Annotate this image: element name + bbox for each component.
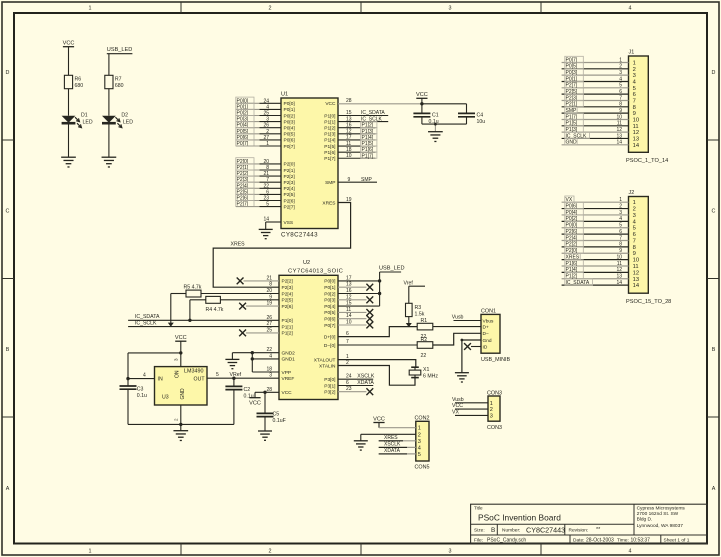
- no-connect X at U2 pin 23: [338, 388, 373, 395]
- title block texts: [474, 505, 690, 543]
- svg-text:2: 2: [418, 432, 421, 438]
- ground (U2 GND): [225, 359, 239, 368]
- wire U2 VCC pin: [255, 391, 279, 394]
- svg-text:P0[6]: P0[6]: [324, 317, 335, 323]
- wire P1[3] to J1 pin 12: [562, 126, 629, 133]
- svg-text:LM3490: LM3490: [184, 368, 203, 374]
- svg-text:4: 4: [266, 104, 269, 110]
- svg-text:3: 3: [174, 358, 179, 361]
- svg-text:CY7C64013_SOIC: CY7C64013_SOIC: [288, 268, 343, 274]
- svg-text:2: 2: [490, 407, 493, 413]
- svg-text:14: 14: [616, 140, 622, 146]
- U1 pin 14 VSS wire: [263, 217, 293, 230]
- svg-text:IC_SDATA: IC_SDATA: [361, 110, 385, 116]
- wire XDATA stub: [338, 380, 374, 386]
- ground (CON2): [354, 441, 368, 450]
- U1 pin 12 P1[3] wire+label: [338, 128, 377, 135]
- svg-text:D1: D1: [81, 112, 88, 118]
- CON1 pin names: [483, 318, 495, 350]
- svg-text:1: 1: [418, 426, 421, 432]
- svg-text:10: 10: [616, 114, 622, 120]
- svg-text:P2[5]: P2[5]: [282, 298, 293, 304]
- svg-text:0.1u: 0.1u: [244, 393, 254, 399]
- svg-text:3: 3: [449, 6, 452, 12]
- svg-text:VSS: VSS: [284, 220, 294, 226]
- svg-text:XSCLK: XSCLK: [384, 442, 401, 448]
- svg-text:VCC: VCC: [416, 92, 428, 98]
- no-connect X at U2 pin 10: [338, 322, 373, 329]
- svg-text:10: 10: [633, 258, 639, 264]
- U1 pin 24 P0[0] wire+label: [236, 97, 295, 107]
- svg-text:3: 3: [266, 117, 269, 123]
- wire U3 OUT pin number: [216, 372, 219, 378]
- svg-text:P0[4]: P0[4]: [284, 126, 295, 132]
- no-connect X at U2 pin 19: [239, 303, 279, 310]
- resistor R6: [64, 75, 83, 89]
- svg-text:C1: C1: [432, 112, 439, 118]
- wire P0[4] to J2 pin 3: [562, 209, 629, 216]
- svg-text:R3: R3: [415, 305, 422, 311]
- U1 pin 18 P1[6] wire+label: [338, 146, 377, 153]
- wire VCC rail to C4: [422, 103, 467, 105]
- U1 pin 3 P0[3] wire+label: [236, 115, 295, 125]
- wire USB_LED to R7: [108, 54, 110, 76]
- svg-text:SMP: SMP: [325, 180, 335, 186]
- svg-text:C: C: [6, 209, 10, 215]
- svg-text:6 MHz: 6 MHz: [423, 374, 438, 380]
- svg-text:P2[6]: P2[6]: [284, 198, 295, 204]
- svg-text:5: 5: [619, 223, 622, 229]
- svg-text:Vusb: Vusb: [452, 314, 464, 320]
- ground (C5): [258, 431, 272, 440]
- svg-text:R4 4.7k: R4 4.7k: [206, 307, 224, 313]
- wire U3 GND pin: [174, 405, 183, 431]
- svg-text:Lynnwood, WA 98037: Lynnwood, WA 98037: [637, 523, 684, 529]
- wire U2 GND2 to ground: [232, 351, 279, 359]
- svg-text:14: 14: [633, 143, 640, 149]
- U1 right-side pin names: [322, 101, 336, 206]
- wire IC_SCLK bus: [128, 321, 279, 327]
- svg-text:P2[1]: P2[1]: [284, 168, 295, 174]
- svg-text:2: 2: [633, 67, 636, 73]
- wire D+ to R1: [338, 327, 417, 337]
- no-connect X at U2 pin 25: [239, 330, 279, 337]
- svg-text:P0[0]: P0[0]: [324, 279, 335, 285]
- svg-text:8: 8: [619, 102, 622, 108]
- svg-text:Revision:: Revision:: [569, 528, 589, 534]
- svg-text:D−: D−: [483, 331, 489, 337]
- svg-text:OUT: OUT: [194, 377, 206, 383]
- wire U2 GND1 tie: [251, 353, 279, 361]
- svg-text:U1: U1: [281, 92, 288, 98]
- wire R6 to D1: [68, 89, 70, 116]
- svg-text:GND1: GND1: [282, 357, 296, 363]
- U1 pin 22 P2[4] wire+label: [236, 182, 295, 192]
- svg-text:R2: R2: [421, 337, 428, 343]
- wire P1[7] to J1 pin 10: [562, 113, 629, 120]
- CON2 inside pin numbers: [418, 426, 421, 458]
- svg-text:Number:: Number:: [502, 528, 520, 534]
- svg-text:3: 3: [633, 73, 636, 79]
- svg-text:1: 1: [89, 549, 92, 555]
- wire SMP to J1 pin 9: [562, 107, 629, 114]
- svg-text:20: 20: [263, 159, 269, 165]
- svg-text:P0[3]: P0[3]: [284, 119, 295, 125]
- svg-text:1.5k: 1.5k: [415, 312, 425, 318]
- svg-text:6: 6: [619, 89, 622, 95]
- svg-text:11: 11: [617, 261, 622, 267]
- wire P1[4] to J2 pin 12: [562, 266, 629, 273]
- svg-text:27: 27: [263, 135, 269, 141]
- svg-text:3: 3: [490, 413, 493, 419]
- svg-text:J2: J2: [629, 190, 635, 196]
- svg-text:Vbus: Vbus: [483, 318, 495, 324]
- svg-text:12: 12: [633, 130, 639, 136]
- power VCC (top-left): [63, 41, 75, 47]
- title block address: [637, 505, 686, 529]
- wire C1-C4 bottom rail: [422, 123, 467, 125]
- svg-text:LED: LED: [83, 119, 93, 125]
- svg-text:P0[5]: P0[5]: [324, 310, 335, 316]
- U1 pin 10 P1[7] wire+label: [338, 152, 377, 159]
- svg-text:22: 22: [263, 183, 269, 189]
- svg-text:2: 2: [633, 207, 636, 213]
- svg-text:P1[1]: P1[1]: [282, 324, 293, 330]
- svg-text:IC_SCLK: IC_SCLK: [135, 321, 157, 327]
- U1 pin 9 SMP wire: [338, 177, 377, 183]
- svg-text:VREF: VREF: [282, 376, 295, 382]
- svg-text:8: 8: [633, 245, 636, 251]
- wire XSCLK to CON2 pin 4: [379, 442, 416, 448]
- svg-text:7: 7: [346, 339, 349, 345]
- U1 pin 27 P0[6] wire+label: [236, 134, 295, 144]
- svg-text:3: 3: [418, 439, 421, 445]
- wire P0[6] to J2 pin 2: [562, 202, 629, 209]
- U1 pin 13 IC_SCLK wire: [338, 116, 388, 122]
- svg-text:P0[2]: P0[2]: [324, 291, 335, 297]
- svg-text:VCC: VCC: [63, 41, 75, 47]
- net label USB_LED (at U2): [379, 265, 405, 272]
- wire VCC to CON2 pin 1: [379, 423, 416, 428]
- svg-text:10: 10: [616, 254, 622, 260]
- svg-text:P0[3]: P0[3]: [324, 298, 335, 304]
- svg-text:1: 1: [490, 401, 493, 407]
- svg-text:5: 5: [619, 83, 622, 89]
- svg-text:14: 14: [633, 283, 640, 289]
- svg-text:CON3: CON3: [487, 425, 502, 431]
- svg-text:C4: C4: [477, 112, 484, 118]
- svg-text:CON5: CON5: [415, 465, 430, 471]
- svg-text:11: 11: [633, 264, 639, 270]
- svg-text:1: 1: [619, 197, 622, 203]
- svg-text:USB_MINIB: USB_MINIB: [481, 357, 510, 363]
- wire ground rail under U3: [128, 423, 234, 425]
- svg-text:P2[5]: P2[5]: [284, 192, 295, 198]
- svg-text:6: 6: [266, 189, 269, 195]
- U2 right-side pin names and numbers: [314, 275, 352, 395]
- svg-text:5: 5: [266, 202, 269, 208]
- svg-text:VPP: VPP: [282, 370, 292, 376]
- wire GND to J1 pin 14: [562, 139, 629, 146]
- svg-text:VCC: VCC: [452, 403, 463, 409]
- svg-text:C: C: [712, 209, 716, 215]
- svg-text:A: A: [712, 486, 716, 492]
- svg-text:9: 9: [619, 108, 622, 114]
- ground (U1 VSS): [259, 229, 273, 238]
- svg-text:4: 4: [629, 549, 632, 555]
- wire U3 IN pin: [126, 373, 154, 381]
- wire XTALOUT to crystal: [338, 360, 416, 368]
- svg-text:B: B: [491, 527, 495, 534]
- svg-text:Vref: Vref: [404, 280, 414, 286]
- capacitor C3: [120, 379, 148, 425]
- svg-text:B: B: [712, 347, 716, 353]
- svg-text:P0[0]: P0[0]: [284, 101, 295, 107]
- svg-text:IC_SDATA: IC_SDATA: [566, 280, 590, 286]
- svg-text:6: 6: [633, 232, 636, 238]
- svg-text:Vusb: Vusb: [452, 397, 464, 403]
- svg-text:Date:: Date:: [573, 537, 584, 543]
- svg-text:5: 5: [418, 452, 421, 458]
- svg-text:P1[0]: P1[0]: [282, 318, 293, 324]
- svg-text:10: 10: [633, 117, 639, 123]
- svg-text:P1[7]: P1[7]: [362, 153, 374, 159]
- svg-text:P2[4]: P2[4]: [284, 186, 295, 192]
- svg-text:1: 1: [633, 61, 636, 67]
- svg-text:4: 4: [619, 76, 622, 82]
- svg-text:XRES: XRES: [231, 242, 246, 248]
- capacitor C4: [458, 104, 485, 125]
- power VCC (below U2 pin 28, inverted): [249, 392, 261, 406]
- svg-text:13: 13: [633, 136, 639, 142]
- wire P1[2] to J2 pin 13: [562, 273, 629, 280]
- wire VRef rail (U3 OUT to U2 VREF): [207, 372, 279, 380]
- wire U2 VPP tie: [252, 359, 279, 372]
- U1 pin 5 P2[7] wire+label: [236, 200, 295, 210]
- svg-text:U3: U3: [162, 395, 169, 401]
- no-connect X at U2 pin 12: [338, 296, 373, 303]
- svg-text:C2: C2: [244, 387, 251, 393]
- crystal X1 (6 MHz): [409, 367, 438, 380]
- connector CON3 body: [487, 390, 502, 431]
- svg-text:P0[1]: P0[1]: [284, 107, 295, 113]
- wire P1[6] to J2 pin 11: [562, 260, 629, 267]
- svg-text:P1[5]: P1[5]: [324, 144, 335, 150]
- svg-text:P3[0]: P3[0]: [324, 377, 335, 383]
- op-amp U1 body (CY8C27443 MCU): [281, 92, 338, 239]
- svg-text:9: 9: [619, 248, 622, 254]
- svg-text:2: 2: [269, 549, 272, 555]
- svg-text:22: 22: [421, 353, 427, 359]
- wire P2[4] to J2 pin 7: [562, 234, 629, 241]
- connector CON1 body (USB_MINIB): [481, 308, 510, 362]
- svg-text:5: 5: [633, 226, 636, 232]
- node VCC junction at C1: [420, 102, 423, 105]
- svg-text:R6: R6: [75, 77, 82, 83]
- svg-text:P1[2]: P1[2]: [324, 126, 335, 132]
- svg-text:C3: C3: [137, 386, 144, 392]
- op-amp U2 body (CY7C64013 USB controller): [279, 260, 343, 400]
- svg-text:6: 6: [619, 229, 622, 235]
- wire P2[5] to J1 pin 6: [562, 88, 629, 95]
- svg-text:USB_LED: USB_LED: [107, 47, 133, 53]
- svg-text:9: 9: [633, 251, 636, 257]
- U1 pin 17 P1[4] wire+label: [338, 134, 377, 141]
- svg-text:D−[0]: D−[0]: [324, 343, 336, 349]
- wire USB_LED down U2 P0 pins: [338, 272, 381, 306]
- power VCC (above U3): [175, 335, 187, 341]
- svg-text:4: 4: [143, 373, 146, 379]
- wire VX to J2 pin 1: [562, 196, 629, 203]
- wire R5 to IC_SCLK: [168, 294, 174, 327]
- svg-text:ON: ON: [175, 370, 181, 378]
- svg-text:C5: C5: [273, 411, 280, 417]
- svg-text:2700 162nd St. SW: 2700 162nd St. SW: [637, 511, 679, 517]
- ground (C1/C4): [428, 132, 443, 142]
- svg-text:1: 1: [266, 141, 269, 147]
- svg-text:B: B: [6, 347, 10, 353]
- svg-text:680: 680: [115, 83, 124, 89]
- svg-text:P0[1]: P0[1]: [324, 285, 335, 291]
- wire P2[3] to J1 pin 7: [562, 94, 629, 101]
- wire VCC to CON3 pin 2: [452, 403, 488, 409]
- connector CON2 body: [415, 416, 430, 471]
- wire D2 to ground: [108, 124, 110, 157]
- capacitor C2: [225, 378, 253, 424]
- U1 pin 15 IC_SDATA wire: [338, 110, 388, 116]
- svg-text:XSCLK: XSCLK: [357, 374, 375, 380]
- ground (D2): [102, 157, 117, 167]
- svg-text:USB_LED: USB_LED: [379, 265, 405, 271]
- svg-text:14: 14: [616, 280, 622, 286]
- U1 pin 26 P0[4] wire+label: [236, 122, 295, 132]
- wire P0[7] to J1 pin 1: [562, 56, 629, 63]
- svg-text:Size:: Size:: [474, 528, 485, 534]
- LED D2: [102, 112, 133, 127]
- svg-text:P0[6]: P0[6]: [284, 138, 295, 144]
- resistor R7: [105, 75, 124, 89]
- U1 pin 4 P0[1] wire+label: [236, 103, 295, 113]
- CON3 inside pin numbers: [490, 401, 493, 420]
- svg-text:8: 8: [266, 165, 269, 171]
- wire P2[7] to J1 pin 5: [562, 82, 629, 89]
- svg-text:7: 7: [633, 98, 636, 104]
- U1 pin 21 P2[2] wire+label: [236, 170, 295, 180]
- wire IC_SCLK to J1 pin 13: [562, 132, 629, 139]
- wire VCC to R6: [68, 47, 70, 76]
- svg-text:0.1u: 0.1u: [137, 393, 147, 399]
- svg-text:1: 1: [89, 6, 92, 12]
- LED D1: [62, 112, 93, 127]
- svg-text:PSoC_Candy.sch: PSoC_Candy.sch: [487, 537, 526, 543]
- capacitor C1: [413, 104, 438, 125]
- svg-text:P2[3]: P2[3]: [284, 180, 295, 186]
- ground (D1): [61, 157, 76, 167]
- wire D1 to ground: [68, 124, 70, 157]
- svg-text:13: 13: [616, 274, 622, 280]
- svg-text:P0[2]: P0[2]: [284, 113, 295, 119]
- svg-text:7: 7: [619, 95, 622, 101]
- no-connect X at CON1 ID: [464, 343, 481, 350]
- wire P2[0] to J2 pin 9: [562, 247, 629, 254]
- svg-text:4: 4: [619, 216, 622, 222]
- U1 pin 2 P0[5] wire+label: [236, 128, 295, 138]
- wire VX to CON3 pin 3: [452, 410, 488, 416]
- svg-text:3: 3: [633, 213, 636, 219]
- U1 pin 1 P0[7] wire+label: [236, 140, 295, 150]
- no-connect X at U2 pin 21: [237, 278, 279, 285]
- wire P0[2] to J2 pin 4: [562, 215, 629, 222]
- svg-text:1: 1: [619, 57, 622, 63]
- svg-text:6: 6: [633, 92, 636, 98]
- wire CON1 Gnd to ground: [461, 339, 482, 373]
- wire D- to R2: [338, 344, 417, 346]
- svg-text:X1: X1: [423, 367, 429, 373]
- svg-text:10u: 10u: [477, 119, 486, 125]
- capacitor C5: [257, 392, 286, 431]
- wire R2 to CON1 D-: [433, 333, 481, 345]
- svg-text:P1[6]: P1[6]: [324, 150, 335, 156]
- power VCC (above C1): [416, 92, 428, 104]
- svg-text:PSOC_15_TO_28: PSOC_15_TO_28: [626, 299, 671, 305]
- svg-text:P2[2]: P2[2]: [284, 174, 295, 180]
- connector J2 body: [626, 190, 671, 305]
- no-connect X at U2 pin 13: [338, 284, 373, 291]
- svg-text:Cypress Microsystems: Cypress Microsystems: [637, 505, 686, 511]
- svg-text:8: 8: [619, 242, 622, 248]
- svg-text:D: D: [6, 70, 10, 76]
- svg-text:CY8C27443: CY8C27443: [281, 232, 318, 239]
- net label Vref with resistor R3: [404, 280, 426, 327]
- J2 inside pin numbers: [633, 200, 640, 289]
- resistor R4: [190, 296, 279, 313]
- svg-text:8: 8: [633, 105, 636, 111]
- U1 pin 19 XRES wire: [213, 197, 352, 287]
- wire R1 to CON1 D+: [433, 326, 481, 328]
- wire CON2 pin 2 to ground: [361, 434, 416, 441]
- svg-text:VX: VX: [452, 410, 459, 416]
- svg-text:CON2: CON2: [415, 416, 430, 422]
- svg-text:D: D: [712, 70, 716, 76]
- resistor R5: [171, 284, 279, 297]
- svg-text:P1[2]: P1[2]: [282, 331, 293, 337]
- U1 pin 23 P2[6] wire+label: [236, 194, 295, 204]
- wire P0[5] to J1 pin 2: [562, 63, 629, 70]
- svg-text:Title: Title: [474, 505, 483, 510]
- svg-text:23: 23: [263, 196, 269, 202]
- svg-text:2: 2: [619, 203, 622, 209]
- svg-text:SMP: SMP: [361, 177, 373, 183]
- U1 pin 7 P2[3] wire+label: [236, 176, 295, 186]
- svg-text:2: 2: [266, 129, 269, 135]
- svg-text:2: 2: [174, 418, 179, 421]
- svg-text:Gnd: Gnd: [483, 338, 492, 344]
- svg-text:P2[2]: P2[2]: [282, 279, 293, 285]
- svg-text:P1[1]: P1[1]: [324, 119, 335, 125]
- svg-text:Bldg D.: Bldg D.: [637, 517, 653, 523]
- svg-text:1: 1: [633, 200, 636, 206]
- svg-text:XDATA: XDATA: [357, 380, 374, 386]
- svg-text:VCC: VCC: [249, 401, 261, 407]
- svg-text:0.1uF: 0.1uF: [273, 418, 286, 424]
- svg-text:P0[4]: P0[4]: [324, 304, 335, 310]
- U1 pin 25 P0[2] wire+label: [236, 109, 295, 119]
- svg-text:D2: D2: [121, 112, 128, 118]
- svg-text:25: 25: [263, 111, 269, 117]
- wire R7 to D2: [108, 89, 110, 116]
- wire VCC branch to U3 IN: [128, 353, 181, 379]
- svg-text:10:53:37: 10:53:37: [631, 537, 651, 543]
